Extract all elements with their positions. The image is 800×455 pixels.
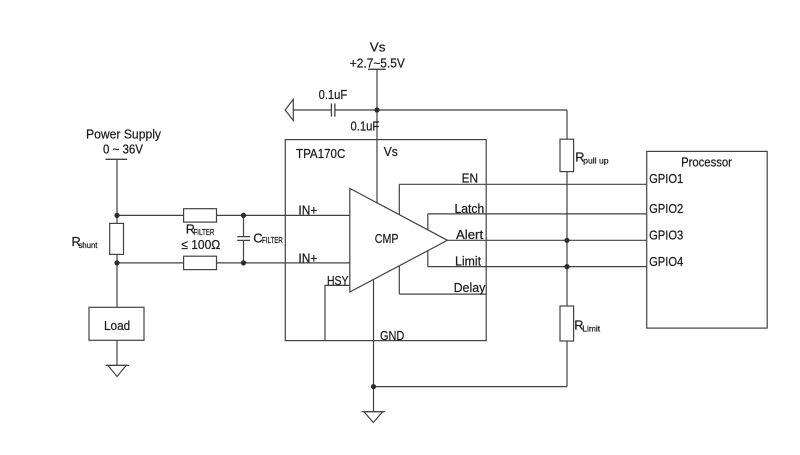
wire: top sense line to IN+ [117, 214, 350, 216]
svg-text:GPIO1: GPIO1 [649, 171, 683, 186]
node: junction bottom sense [114, 260, 119, 265]
Vs power rail bar [368, 68, 386, 70]
Processor box [647, 151, 768, 328]
svg-text:0 ~ 36V: 0 ~ 36V [103, 142, 143, 157]
svg-text:TPA170C: TPA170C [296, 146, 345, 161]
svg-text:0.1uF: 0.1uF [351, 119, 380, 134]
op-amp U1 CMP triangle [350, 188, 448, 292]
wire: Vs top vertical [376, 69, 378, 203]
wire: right rail lower (RLimit to gnd rail) [566, 341, 568, 387]
resistor Rshunt body [110, 223, 124, 254]
wire: right rail upper (to Rpullup) [566, 110, 568, 139]
svg-text:+2.7~5.5V: +2.7~5.5V [350, 56, 405, 71]
svg-text:Alert: Alert [456, 227, 484, 242]
svg-text:Limit: Limit [455, 253, 481, 268]
svg-text:Power Supply: Power Supply [86, 127, 162, 142]
svg-text:Latch: Latch [455, 201, 485, 216]
node: junction Alert/Rpullup [564, 238, 569, 243]
node: junction ground rail [371, 384, 376, 389]
svg-text:GPIO3: GPIO3 [649, 227, 683, 242]
svg-text:IN+: IN+ [298, 250, 317, 265]
svg-text:Vs: Vs [370, 40, 386, 55]
svg-text:shunt: shunt [79, 241, 99, 250]
wire: Delay line [399, 293, 486, 295]
off-page arrow connector [285, 99, 293, 120]
wire: bottom sense line to IN+ [117, 262, 350, 264]
svg-text:GPIO2: GPIO2 [649, 201, 683, 216]
capacitor CFILTER plates [237, 237, 250, 241]
svg-text:Processor: Processor [681, 155, 732, 170]
svg-text:FILTER: FILTER [262, 236, 283, 245]
svg-text:0.1uF: 0.1uF [319, 87, 348, 102]
svg-text:EN: EN [462, 170, 478, 185]
svg-text:HSY: HSY [327, 273, 349, 288]
power rail bar [106, 158, 128, 160]
node: junction Cfilter bottom [241, 260, 246, 265]
wire: top rail right segment (cap to right rail) [335, 109, 567, 111]
IC TPA170C box [285, 140, 486, 341]
wire: Latch line [428, 213, 647, 215]
ground symbol (load) [106, 365, 130, 376]
node: junction Cfilter top [241, 213, 246, 218]
node: junction Limit/RLimit [564, 264, 569, 269]
svg-text:≤ 100Ω: ≤ 100Ω [181, 237, 220, 252]
svg-text:FILTER: FILTER [194, 228, 215, 237]
wire: Latch-Limit bracket [427, 214, 429, 267]
wire: Alert line [447, 239, 647, 241]
wire: top rail left segment (arrow to cap) [293, 109, 331, 111]
Load box [89, 307, 144, 340]
svg-text:IN+: IN+ [298, 203, 317, 218]
wire: bottom ground rail [374, 386, 568, 388]
resistor RFILTER top body [184, 209, 217, 222]
svg-text:Load: Load [104, 318, 130, 333]
svg-text:GPIO4: GPIO4 [649, 254, 683, 269]
wire: right rail mid (Rpullup to RLimit) [566, 172, 568, 306]
svg-text:pull up: pull up [583, 156, 609, 165]
ground symbol (main) [361, 412, 385, 423]
wire: EN-Delay bracket [398, 184, 400, 294]
node: junction Vs rail [374, 107, 379, 112]
wire: HSY pin [325, 285, 350, 340]
svg-text:Delay: Delay [454, 280, 486, 295]
resistor Rpullup body [560, 139, 574, 171]
svg-text:Limit: Limit [582, 324, 601, 333]
node: junction top sense [114, 213, 119, 218]
svg-text:CMP: CMP [375, 231, 399, 246]
resistor RLimit body [560, 306, 574, 341]
wire: power supply vertical [116, 159, 118, 307]
svg-text:Vs: Vs [384, 144, 398, 159]
wire: Limit line [428, 266, 647, 268]
wire: load to ground [116, 340, 118, 365]
capacitor C2 0.1uF plates [331, 103, 335, 116]
wire: GND pin vertical to ground [373, 272, 375, 412]
wire: EN line [399, 183, 646, 185]
wire: Cfilter vertical [243, 215, 245, 263]
svg-text:GND: GND [380, 328, 404, 343]
resistor RFILTER bottom body [184, 256, 217, 269]
